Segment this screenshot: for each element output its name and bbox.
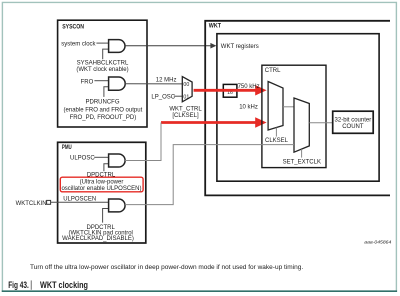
- wire DPDCTRL to U4 input 2: [103, 209, 109, 223]
- svg-text:system clock: system clock: [61, 41, 96, 47]
- wire M1 output to M2: [283, 106, 294, 108]
- svg-text:WKT clocking: WKT clocking: [40, 280, 88, 290]
- wire U4 output to SET_EXTCLK mux input: [125, 145, 294, 205]
- svg-text:12 MHz: 12 MHz: [156, 77, 177, 83]
- svg-text:FRO: FRO: [81, 79, 94, 85]
- wire U3 output up to 10 kHz line: [125, 123, 161, 161]
- svg-text:WKT registers: WKT registers: [221, 44, 259, 50]
- svg-text:WAKECLKPAD_DISABLE): WAKECLKPAD_DISABLE): [62, 236, 134, 242]
- svg-text:Turn off the ultra low-power o: Turn off the ultra low-power oscillator …: [30, 264, 303, 271]
- svg-text:PDRUNCFG: PDRUNCFG: [86, 100, 120, 106]
- caption bottom rule: [2, 290, 397, 292]
- wire LP_OSC stub to mux input 01: [174, 95, 183, 97]
- wire WKTCLKIN to U4: [51, 201, 109, 203]
- and-gate U2 (FRO enable): [109, 77, 126, 90]
- red highlight box ULPOSCEN: [60, 177, 143, 192]
- and-gate U1 (WKT clock enable): [109, 40, 125, 53]
- wire system clock to U1: [96, 42, 108, 44]
- svg-text:SYSAHBCLKCTRL: SYSAHBCLKCTRL: [77, 60, 129, 66]
- mux M2 SET_EXTCLK: [294, 98, 309, 152]
- svg-text:WKT: WKT: [209, 23, 221, 30]
- svg-text:(enable FRO and FRO output: (enable FRO and FRO output: [64, 108, 143, 114]
- pad WKTCLKIN: [47, 200, 51, 204]
- mux M1 CLKSEL: [268, 82, 283, 131]
- and-gate U3 (ultra low-power oscillator enable): [109, 154, 126, 167]
- divider box 16: [223, 84, 237, 97]
- wire DPDCTRL to U3 input 2: [104, 164, 109, 172]
- block 32-bit counter COUNT: [333, 111, 374, 133]
- svg-text:WKT_CTRL: WKT_CTRL: [169, 107, 202, 113]
- svg-text:FRO_PD, FROOUT_PD): FRO_PD, FROOUT_PD): [70, 115, 137, 121]
- red clock path 750 kHz arrow: [194, 89, 257, 92]
- svg-text:(Ultra low-power: (Ultra low-power: [80, 180, 124, 186]
- svg-text:10 kHz: 10 kHz: [239, 105, 258, 111]
- svg-text:ULPOSC: ULPOSC: [70, 155, 95, 161]
- block CTRL: [262, 65, 326, 167]
- wire U1 output to WKT registers: [125, 45, 211, 47]
- svg-text:PMU: PMU: [62, 144, 72, 151]
- block SYSCON: [58, 20, 147, 127]
- svg-text:SET_EXTCLK: SET_EXTCLK: [283, 159, 321, 165]
- svg-text:ULPOSCEN: ULPOSCEN: [63, 196, 96, 202]
- wire SYSAHBCLKCTRL to U1 input 2: [103, 49, 109, 59]
- svg-text:COUNT: COUNT: [342, 124, 364, 130]
- svg-text:CTRL: CTRL: [265, 68, 281, 74]
- svg-text:(WKT clock enable): (WKT clock enable): [76, 67, 128, 73]
- wire M2 output to COUNT: [309, 122, 332, 124]
- wire M1 select to CLKSEL label: [275, 128, 277, 137]
- svg-text:32-bit counter: 32-bit counter: [335, 117, 372, 123]
- block WKT registers: [217, 34, 379, 182]
- svg-text:SYSCON: SYSCON: [62, 24, 84, 31]
- block WKT (right edge clipped): [205, 21, 390, 196]
- block PMU: [58, 142, 146, 243]
- wire FRO to U2: [94, 80, 108, 82]
- svg-text:oscillator enable ULPOSCEN): oscillator enable ULPOSCEN): [61, 186, 141, 192]
- wire U2 output 12 MHz to mux input 00: [125, 83, 182, 85]
- svg-text:Fig 43.: Fig 43.: [8, 280, 29, 290]
- caption divider: [30, 280, 32, 289]
- svg-text:CLKSEL: CLKSEL: [265, 138, 289, 144]
- mux WKT_CTRL [CLKSEL]: [182, 77, 192, 102]
- svg-text:WKTCLKIN: WKTCLKIN: [16, 201, 47, 207]
- arrowhead into WKT registers: [210, 43, 216, 49]
- red clock path 10 kHz arrow: [161, 121, 257, 124]
- svg-text:01: 01: [183, 94, 189, 100]
- svg-text:00: 00: [183, 82, 189, 88]
- svg-text:[CLKSEL]: [CLKSEL]: [172, 113, 199, 119]
- and-gate U4 (WKTCLKIN pad enable): [109, 199, 125, 212]
- wire M2 select to SET_EXTCLK label: [301, 149, 303, 157]
- svg-text:LP_OSC: LP_OSC: [151, 94, 175, 100]
- svg-text:750 kHz: 750 kHz: [238, 84, 260, 90]
- svg-text:aaa-045864: aaa-045864: [364, 240, 391, 246]
- wire ULPOSC to U3: [94, 156, 108, 158]
- wire PDRUNCFG to U2 input 2: [104, 87, 109, 97]
